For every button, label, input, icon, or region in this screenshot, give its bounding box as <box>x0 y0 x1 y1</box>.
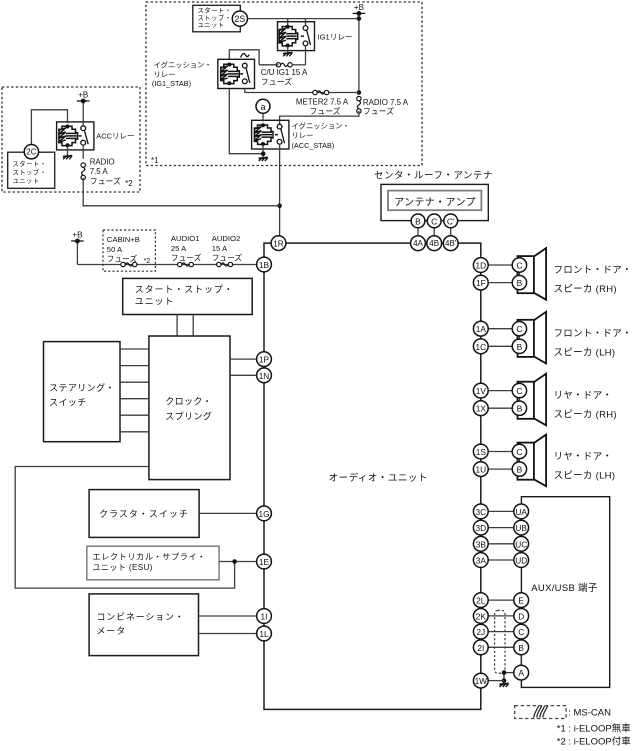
svg-text:B: B <box>415 216 421 226</box>
svg-text:フューズ: フューズ <box>212 252 243 262</box>
svg-text:UC: UC <box>515 539 527 549</box>
svg-text:1N: 1N <box>259 371 270 381</box>
svg-text:3B: 3B <box>476 539 487 549</box>
svg-text:リヤ・ドア・: リヤ・ドア・ <box>554 390 613 401</box>
svg-text:METER2 7.5 A: METER2 7.5 A <box>296 98 349 107</box>
svg-text:イグニッション・: イグニッション・ <box>154 61 212 70</box>
svg-text:7.5 A: 7.5 A <box>90 167 109 176</box>
svg-text:2L: 2L <box>476 596 486 606</box>
svg-text:フロント・ドア・: フロント・ドア・ <box>554 265 632 276</box>
svg-text:1B: 1B <box>259 260 270 270</box>
svg-text:イグニッション・: イグニッション・ <box>292 122 350 131</box>
svg-text:C/U IG1 15 A: C/U IG1 15 A <box>261 68 308 77</box>
svg-text:RADIO: RADIO <box>90 157 115 166</box>
svg-text:*2 : i-ELOOP付車: *2 : i-ELOOP付車 <box>557 735 631 747</box>
svg-text:2J: 2J <box>476 627 485 637</box>
svg-text:4A: 4A <box>413 239 423 248</box>
svg-text:メータ: メータ <box>97 626 126 636</box>
svg-text:B: B <box>517 342 523 352</box>
svg-text:3A: 3A <box>476 556 487 566</box>
svg-text:リレー: リレー <box>154 70 176 79</box>
svg-text:50 A: 50 A <box>107 245 123 254</box>
svg-text:フロント・ドア・: フロント・ドア・ <box>554 329 632 340</box>
svg-text:1W: 1W <box>475 676 488 686</box>
svg-text:15 A: 15 A <box>212 244 228 253</box>
svg-text:*2: *2 <box>125 179 133 188</box>
svg-text:リレー: リレー <box>292 131 314 140</box>
svg-text:1E: 1E <box>259 557 270 567</box>
svg-text:オーディオ・ユニット: オーディオ・ユニット <box>329 472 428 484</box>
svg-text:*1: *1 <box>151 156 159 165</box>
svg-text:2C: 2C <box>26 148 36 157</box>
svg-text:ACCリレー: ACCリレー <box>96 131 134 140</box>
svg-text:スタート・: スタート・ <box>198 6 232 15</box>
svg-text:1R: 1R <box>273 239 284 249</box>
svg-text:1V: 1V <box>476 386 487 396</box>
svg-text:1L: 1L <box>259 629 269 639</box>
svg-text:1U: 1U <box>475 465 486 475</box>
svg-text:4B': 4B' <box>445 239 457 248</box>
svg-text:2S: 2S <box>235 14 246 24</box>
svg-text:*1 : i-ELOOP無車: *1 : i-ELOOP無車 <box>557 722 631 734</box>
svg-text:リヤ・ドア・: リヤ・ドア・ <box>554 451 613 462</box>
svg-text:: MS-CAN: : MS-CAN <box>568 707 611 718</box>
svg-text:C: C <box>516 261 522 271</box>
svg-text:C: C <box>516 324 522 334</box>
svg-text:B: B <box>517 465 523 475</box>
svg-text:コンビネーション・: コンビネーション・ <box>97 612 185 622</box>
svg-text:4B: 4B <box>429 239 439 248</box>
svg-text:C: C <box>431 216 437 226</box>
svg-text:+B: +B <box>78 91 88 100</box>
svg-text:ユニット (ESU): ユニット (ESU) <box>92 563 152 572</box>
svg-text:IG1リレー: IG1リレー <box>318 32 353 41</box>
svg-text:1P: 1P <box>259 355 270 365</box>
svg-text:スタート・ストップ・: スタート・ストップ・ <box>135 284 234 294</box>
svg-text:フューズ: フューズ <box>90 176 121 186</box>
svg-text:E: E <box>518 596 524 606</box>
svg-text:B: B <box>517 278 523 288</box>
svg-text:1F: 1F <box>476 278 486 288</box>
svg-text:C': C' <box>447 216 455 226</box>
svg-text:スタート・: スタート・ <box>13 159 47 168</box>
svg-text:スイッチ: スイッチ <box>49 397 87 407</box>
svg-text:25 A: 25 A <box>171 244 187 253</box>
svg-text:B: B <box>518 643 524 653</box>
svg-text:+B: +B <box>72 231 82 240</box>
svg-text:2I: 2I <box>477 643 484 653</box>
svg-text:UA: UA <box>515 507 527 517</box>
svg-text:C: C <box>518 627 524 637</box>
svg-text:a: a <box>260 102 265 112</box>
svg-text:センタ・ルーフ・アンテナ: センタ・ルーフ・アンテナ <box>374 170 493 181</box>
svg-text:フューズ: フューズ <box>171 252 202 262</box>
svg-text:AUDIO1: AUDIO1 <box>171 234 200 243</box>
svg-text:1D: 1D <box>475 261 486 271</box>
svg-text:3D: 3D <box>475 523 486 533</box>
svg-text:(IG1_STAB): (IG1_STAB) <box>152 79 191 88</box>
svg-text:A: A <box>518 668 524 678</box>
svg-text:C: C <box>516 386 522 396</box>
svg-text:スピーカ (RH): スピーカ (RH) <box>554 284 617 295</box>
svg-text:ステアリング・: ステアリング・ <box>49 382 115 393</box>
svg-text:AUDIO2: AUDIO2 <box>212 234 241 243</box>
svg-text:1X: 1X <box>476 404 487 414</box>
svg-text:スピーカ (LH): スピーカ (LH) <box>554 471 616 482</box>
svg-text:アンテナ・アンプ: アンテナ・アンプ <box>394 196 476 208</box>
svg-text:ユニット: ユニット <box>198 22 225 29</box>
svg-text:2K: 2K <box>476 611 487 621</box>
svg-text:フューズ: フューズ <box>309 106 340 116</box>
svg-text:ストップ・: ストップ・ <box>198 14 232 22</box>
svg-text:RADIO 7.5 A: RADIO 7.5 A <box>363 98 409 107</box>
svg-text:AUX/USB 端子: AUX/USB 端子 <box>531 582 598 594</box>
svg-text:*2: *2 <box>144 256 151 265</box>
svg-text:スピーカ (RH): スピーカ (RH) <box>554 410 617 421</box>
svg-text:ユニット: ユニット <box>135 297 175 307</box>
svg-text:1S: 1S <box>476 447 487 457</box>
svg-text:D: D <box>518 611 524 621</box>
svg-text:スプリング: スプリング <box>165 410 212 421</box>
svg-text:3C: 3C <box>475 507 486 517</box>
svg-text:CABIN+B: CABIN+B <box>107 235 140 244</box>
svg-text:B: B <box>517 404 523 414</box>
svg-text:1I: 1I <box>261 612 268 622</box>
svg-text:UB: UB <box>515 523 527 533</box>
svg-text:C: C <box>516 447 522 457</box>
svg-text:ユニット: ユニット <box>13 178 40 185</box>
svg-text:UD: UD <box>515 556 527 566</box>
svg-text:エレクトリカル・サプライ・: エレクトリカル・サプライ・ <box>92 553 206 562</box>
svg-text:1C: 1C <box>475 342 486 352</box>
svg-text:1G: 1G <box>258 509 269 519</box>
svg-text:1A: 1A <box>476 324 487 334</box>
svg-text:(ACC_STAB): (ACC_STAB) <box>292 141 335 150</box>
svg-text:クラスタ・スイッチ: クラスタ・スイッチ <box>99 509 189 519</box>
svg-text:フューズ: フューズ <box>261 77 292 87</box>
svg-text:+B: +B <box>354 3 364 12</box>
svg-text:スピーカ (LH): スピーカ (LH) <box>554 348 616 359</box>
svg-text:フューズ: フューズ <box>363 106 394 116</box>
svg-text:クロック・: クロック・ <box>165 396 212 406</box>
svg-text:ストップ・: ストップ・ <box>13 169 47 177</box>
